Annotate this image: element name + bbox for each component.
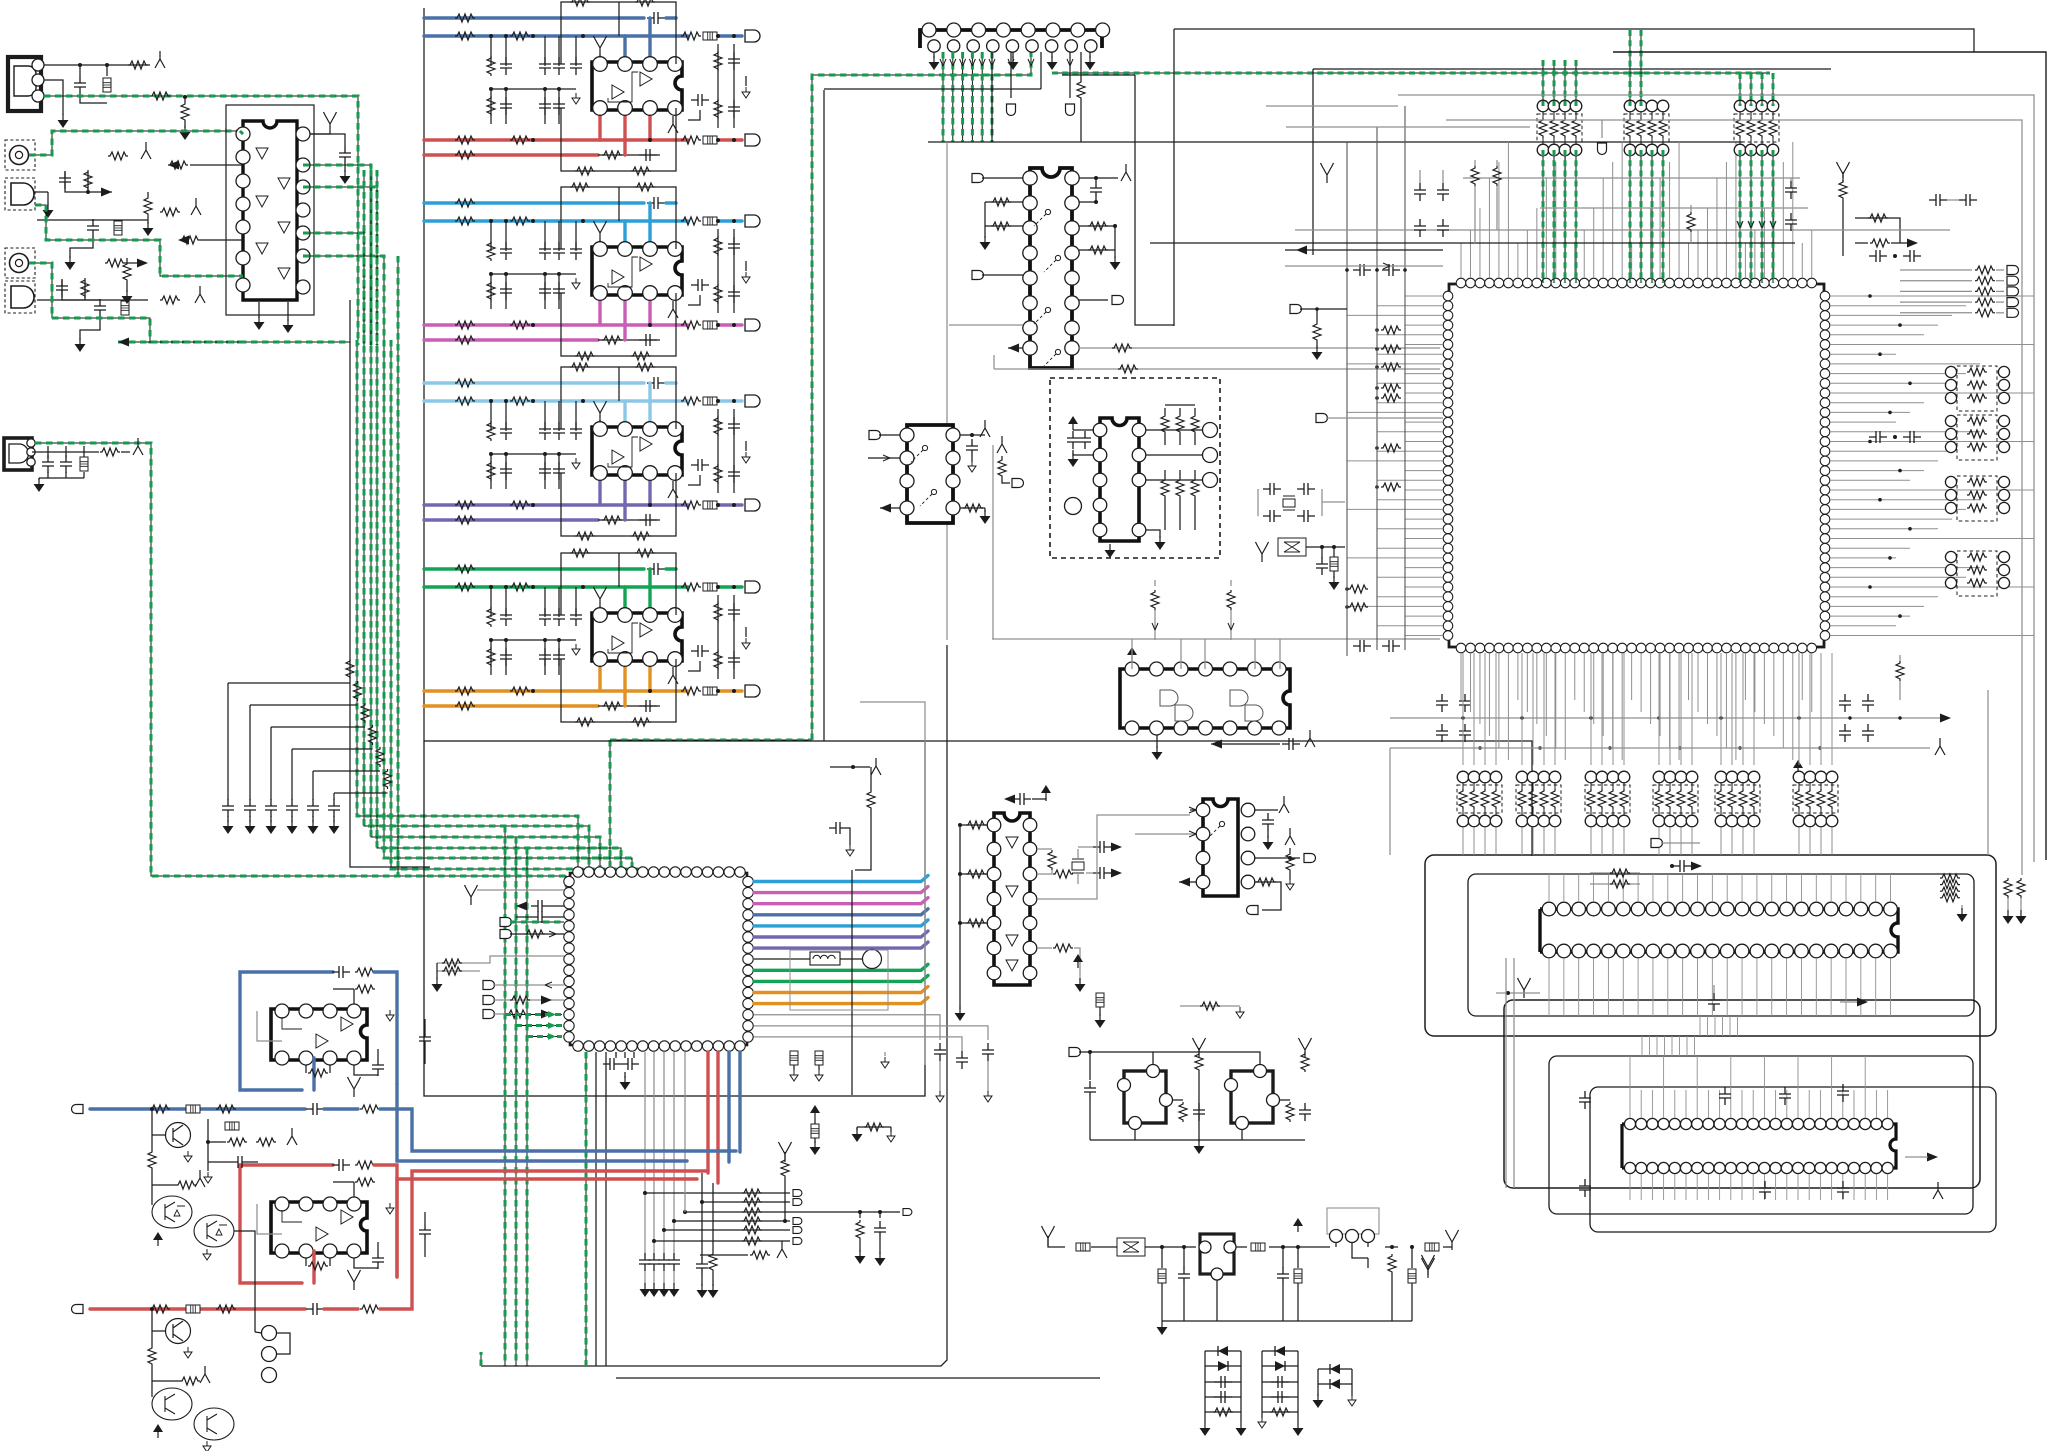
green horiz top right [1052, 72, 1770, 74]
RC filter cluster U2C [490, 401, 492, 431]
resistor 5 [313, 770, 380, 772]
capacitor bypass 3 [270, 727, 272, 800]
wire input B U2A [424, 34, 688, 37]
inner wiring U12 [282, 1210, 302, 1222]
inner wiring U11 [282, 1017, 302, 1029]
wire colored out 2 [754, 887, 928, 893]
resistor row 4 [674, 1220, 790, 1222]
resistor below QFP [1899, 655, 1901, 661]
SAW filter [1256, 542, 1269, 562]
middle components [207, 1119, 209, 1162]
ferrite pair below pins [790, 1051, 798, 1065]
green wire jack1 [29, 131, 240, 155]
black trunk wire [350, 300, 430, 867]
op-amp IC U2A [592, 62, 682, 110]
IC U3 [1030, 168, 1072, 368]
Y pullup [779, 1142, 792, 1162]
op-amp IC U12 [271, 1202, 367, 1253]
resistor pack RPR1 [1945, 366, 1956, 377]
wire right vertical 1988 [1987, 690, 1989, 855]
double resistor arrow [1855, 218, 1900, 243]
misc in box [1708, 993, 1720, 1011]
terminal [972, 174, 984, 183]
caps below red [701, 1173, 703, 1258]
connector jack 2 [5, 178, 35, 210]
green bus wire 1 [357, 340, 578, 871]
inductor box [790, 950, 888, 1010]
green wires pack1 [1542, 60, 1544, 106]
ground [62, 110, 64, 115]
ground pins J3 [933, 52, 935, 58]
resistor pack RPR2 [1945, 415, 1956, 426]
capacitor bypass 1 [227, 683, 229, 800]
power arrow right [1073, 954, 1083, 968]
transistor Q4 [166, 1319, 191, 1344]
wire output B U2A [424, 153, 598, 156]
feedback loop top U2D [561, 553, 676, 615]
right边 verticals [860, 702, 925, 1065]
Y and resistors [1193, 1038, 1206, 1058]
U31 pin stubs [1630, 1090, 1888, 1200]
wire input A U2B [424, 201, 644, 204]
feedback loop top U2B [561, 187, 676, 249]
bottom resistor U7 [1037, 947, 1052, 949]
connector J2 [4, 438, 32, 470]
power U6 [1127, 647, 1137, 661]
D-term mid [1598, 143, 1607, 155]
box around U3 [946, 142, 948, 640]
resistor 1 [228, 682, 350, 684]
U30 pin stubs [1549, 874, 1891, 1016]
crystal cluster [1263, 483, 1281, 495]
ferrite bead [106, 65, 108, 76]
gnd rail [1048, 1320, 1412, 1322]
crystal right U7 [1037, 848, 1052, 850]
left bus U7 [959, 825, 961, 1009]
green loop around filter area [812, 52, 1031, 740]
wire output B U2C [424, 518, 598, 521]
center box [424, 741, 925, 1096]
wire input A U2A [424, 16, 644, 19]
capacitor bypass 2 [249, 705, 251, 800]
left Y and arrow [1321, 163, 1334, 183]
resistor row 3 [685, 1211, 790, 1213]
filter area border [823, 90, 825, 741]
wires J3 down [1010, 52, 1012, 98]
bottom caps cluster [615, 1052, 617, 1058]
resistor row 1 [645, 1192, 790, 1194]
inductor line [754, 958, 810, 960]
green wire vertical 1 [504, 826, 506, 1366]
wide IC U30 [1540, 909, 1898, 952]
wires around U1 [190, 164, 243, 166]
diode bank 2 [1262, 1350, 1298, 1352]
right cap U11 [354, 1065, 378, 1075]
green wire vertical 4 [585, 1052, 587, 1366]
wire input A U2D [424, 567, 644, 570]
routing box E [1590, 1087, 1996, 1232]
green bus wire 2 [364, 170, 589, 871]
feedback res U12 [306, 1251, 330, 1266]
IC U6 NAND [1120, 669, 1290, 728]
green wires pack3 [1739, 73, 1741, 106]
capacitor bypass 5 [312, 771, 314, 800]
connector jack 3 [5, 248, 35, 278]
top pin wires [1461, 142, 1812, 278]
wire colored out 6 [754, 931, 928, 937]
black bus from J3 [1040, 52, 1042, 89]
caps between bus [1353, 264, 1371, 276]
resistor pack RPB6 [1793, 771, 1805, 783]
resistor pulldown [184, 99, 186, 102]
resistor pack RPR3 [1945, 476, 1956, 487]
wire QFP right edge drop [1389, 748, 1391, 855]
op-amp IC U2B [592, 247, 682, 295]
wire output A U2A [424, 138, 688, 141]
feedback loop bottom U2B [561, 293, 676, 356]
wire output B U2B [424, 338, 598, 341]
IC U13 [1200, 1234, 1234, 1274]
wire U4 to bus [992, 445, 994, 639]
resistor pack RPB2 [1516, 771, 1528, 783]
RC filter cluster U2A [490, 36, 492, 66]
terminal U4 [869, 431, 881, 440]
diode pair 3 [1318, 1368, 1352, 1370]
ground [47, 192, 49, 205]
green terminal wires [500, 918, 512, 927]
resistor row 2 [702, 1201, 790, 1203]
dashed module box [1050, 378, 1220, 558]
connector 3pin [262, 1326, 277, 1341]
long cap drops [644, 1052, 646, 1253]
wire J1 pin2 [44, 80, 63, 110]
green video bus from J1 [44, 96, 358, 345]
left vertical bus [1346, 142, 1348, 656]
IC U8 [1203, 799, 1238, 896]
left resistors [1381, 326, 1401, 334]
gnd U6 [1156, 735, 1158, 748]
wire jack1 filter [61, 131, 63, 155]
wire colored out 7 [754, 942, 928, 948]
resistor bridge [857, 1126, 891, 1128]
caps right lower [754, 1015, 940, 1040]
RC output cluster U2D [717, 595, 719, 679]
top cap U7 [1029, 800, 1031, 806]
green wire jack2 [35, 205, 240, 276]
corner lower left [1422, 1258, 1435, 1278]
resistor pack RPB3 [1585, 771, 1597, 783]
wire output A U2D [424, 689, 688, 692]
RC output cluster U2A [717, 44, 719, 128]
resistor 2 [250, 704, 358, 706]
power arrow mid [810, 1105, 820, 1119]
wire colored out 4 [754, 909, 928, 915]
gray wires from U7 [1037, 815, 1190, 899]
wire jack4 [37, 299, 148, 301]
capacitor bypass 4 [291, 749, 293, 800]
bottom pin wires [615, 1052, 617, 1056]
resistor network right [1336, 1246, 1344, 1248]
wire output B U2D [424, 704, 598, 707]
feedback loop bottom U2C [561, 473, 676, 536]
blue input wire [90, 1107, 305, 1110]
IC U1 video switch box [226, 105, 314, 315]
wire jack3 [29, 263, 52, 285]
resistor pack RPB5 [1715, 771, 1727, 783]
IC U4 [907, 425, 953, 523]
green bus wire 7 [398, 256, 430, 876]
inputs U8 [1190, 809, 1196, 811]
feedback loop top U2C [561, 367, 676, 429]
RC output cluster U2C [717, 409, 719, 493]
DIP2 upper stubs [1630, 1056, 1865, 1090]
IC U10 DSP QFP [570, 873, 747, 1045]
gray bus to U6 [992, 638, 1440, 640]
wire colored out 10 [754, 987, 928, 993]
resistor pack RP3 [1734, 100, 1746, 112]
wire colored out 9 [754, 975, 928, 981]
wire input A U2C [424, 381, 644, 384]
black bus lines above QFP [1463, 177, 1800, 179]
right cap U12 [354, 1258, 378, 1268]
wide IC U31 [1622, 1124, 1896, 1168]
wire input B U2D [424, 585, 688, 588]
gnd pll [1090, 1139, 1305, 1141]
routing box B [1468, 874, 1974, 1016]
left bottom L [1422, 1255, 1435, 1275]
PLL tank 1 [1124, 1071, 1166, 1123]
cap pair upper [1929, 194, 1947, 206]
IC U20 main processor QFP [1449, 284, 1824, 647]
connector J1 [8, 57, 41, 111]
red input wire [90, 1307, 305, 1310]
caps top inside box A [1673, 860, 1691, 872]
wire J1 pin1 [44, 64, 150, 66]
connector jack 4 [5, 281, 35, 313]
op-amp IC U2D [592, 613, 682, 661]
wire left bus [423, 8, 425, 741]
resistors inside top [1590, 872, 1640, 874]
connector pins [1203, 423, 1218, 438]
wire input B U2B [424, 219, 688, 222]
J2 RC [47, 443, 49, 455]
resistor ladder U5 [1164, 408, 1166, 414]
routing lines top right [1613, 52, 2046, 860]
red wires up [706, 1052, 709, 1173]
PLL tank 2 [1231, 1071, 1273, 1123]
caps below QFP [1436, 694, 1448, 712]
capacitor bypass 6 [333, 793, 335, 800]
resistor pack RPR4 [1945, 551, 1956, 562]
green wire vertical 2 [515, 837, 517, 1366]
blue wires up [727, 1052, 730, 1162]
resistors far right [2004, 878, 2012, 898]
U4 right parts [960, 434, 985, 436]
QFP bottom pin stubs [1461, 653, 1812, 760]
wire verticals below QFP [595, 1052, 597, 1366]
capacitor [79, 65, 81, 76]
left resistors [437, 956, 564, 963]
vertical bundles [1642, 1016, 1738, 1056]
resistor under Q1 [151, 1135, 153, 1150]
resistors U3 left [985, 201, 1023, 203]
wire colored out 11 [754, 998, 928, 1004]
connector jack 1 [5, 140, 35, 170]
connector block [1327, 1208, 1379, 1234]
transistor pair Q5 Q6 [152, 1388, 192, 1420]
long verticals left [1505, 958, 1507, 1188]
D-terminals right [1900, 269, 1972, 271]
resistor 3 [271, 726, 365, 728]
wire jack2 [35, 196, 148, 212]
op-amp IC U2C [592, 427, 682, 475]
caps U5 [1073, 429, 1094, 431]
resistor row 5 [664, 1229, 790, 1231]
caps right of QFP [1869, 250, 1887, 262]
right pin wires [1830, 296, 2034, 636]
bottom row 7 [700, 1254, 748, 1256]
feedback loop bottom U2A [561, 108, 676, 171]
green bus wire 5 [384, 340, 632, 871]
wire loop U12 [240, 1165, 333, 1283]
wire loop U11 [240, 972, 333, 1090]
U8 right [1255, 809, 1278, 811]
green bus wire 4 [377, 170, 621, 871]
Y right [1837, 162, 1850, 182]
resistor pack RP1 [1537, 100, 1549, 112]
misc right of box [871, 758, 881, 775]
wire colored out 8 [754, 964, 928, 970]
wire colored out 5 [754, 920, 928, 926]
RC filter cluster U2B [490, 221, 492, 251]
resistor pack RPB4 [1653, 771, 1665, 783]
chain right [1236, 1246, 1247, 1248]
resistor dividers below U1 [354, 208, 356, 212]
resistor 6 [334, 792, 388, 794]
resistor row 6 [654, 1240, 790, 1242]
feedback loop top U2A [561, 2, 676, 64]
resistor 4 [292, 748, 373, 750]
wire colored out 3 [754, 898, 928, 904]
power below QFP [1793, 760, 1803, 774]
green wires into U1 [240, 131, 243, 134]
resistors mid [1474, 160, 1476, 166]
green bus wire 6 [391, 340, 643, 871]
left pin wires [1347, 296, 1443, 636]
input terminal [1069, 1048, 1081, 1057]
caps left of packs [1414, 183, 1426, 201]
green bus wire 3 [371, 170, 600, 871]
cap right1 [1785, 181, 1797, 199]
resistor pack RPB1 [1457, 771, 1469, 783]
wire output A U2B [424, 323, 688, 326]
horizontal rails below QFP [1390, 717, 1940, 719]
routing corner top [1173, 29, 1175, 326]
transistor Q1 [166, 1123, 191, 1148]
green wire vertical 3 [526, 848, 528, 1366]
IC U5 [1100, 418, 1139, 541]
green arrows into left pins [505, 1014, 562, 1016]
wire colored out 1 [754, 876, 928, 882]
wires U3 right [1079, 177, 1118, 179]
green wires J3 [942, 52, 944, 142]
green wire jack4 [52, 285, 240, 342]
feedback res U11 [306, 1058, 330, 1073]
transistor pair Q2 Q3 [152, 1196, 192, 1228]
Y left of U30 [1518, 978, 1531, 998]
connector J3 [920, 30, 1102, 48]
feedback loop bottom U2D [561, 659, 676, 722]
routing box C [1549, 1056, 1973, 1214]
left side parts [465, 885, 478, 905]
green wires pack2 [1629, 30, 1631, 106]
RF chain [1042, 1226, 1055, 1246]
green wire J2 long run [35, 443, 568, 890]
caps around U31 [1579, 1091, 1591, 1109]
routing box D [1504, 1000, 1980, 1188]
RC output cluster U2B [717, 229, 719, 313]
IC U7 inverter bank [994, 813, 1030, 985]
resistors above U6 [1154, 580, 1156, 586]
resistor pack RP2 [1624, 100, 1636, 112]
wire output A U2C [424, 503, 688, 506]
filter caps [1161, 1247, 1163, 1268]
wire input B U2C [424, 399, 688, 402]
RC filter cluster U2D [490, 587, 492, 617]
resistors right of U30 [1940, 874, 1960, 882]
routing box A [1425, 855, 1996, 1036]
diode bank 1 [1205, 1350, 1241, 1352]
op-amp IC U11 [271, 1009, 367, 1060]
